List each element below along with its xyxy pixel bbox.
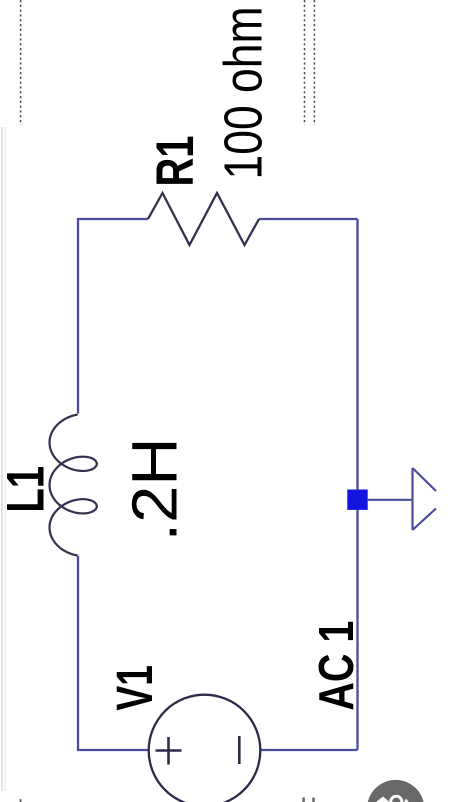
svg-text:L1: L1 <box>0 466 56 513</box>
wire top-right segment <box>259 218 358 220</box>
svg-text:.2H: .2H <box>119 438 191 542</box>
faint panel edge line left <box>1 127 3 791</box>
wire bottom-right segment <box>261 749 358 751</box>
ground triangle <box>413 468 437 530</box>
svg-text:R1: R1 <box>146 136 205 187</box>
junction node square <box>347 490 367 510</box>
wire bottom-left segment <box>78 556 149 750</box>
floating action button <box>367 780 424 802</box>
V1 plus sign <box>156 749 182 752</box>
page border dashed line right <box>313 0 315 125</box>
wire right vertical <box>356 219 358 750</box>
resistor R1 zigzag <box>148 193 259 245</box>
svg-text:V1: V1 <box>106 665 163 711</box>
fab icon <box>376 797 390 802</box>
ground stem wire <box>368 499 413 501</box>
bottom page border dash start <box>20 799 22 802</box>
voltage source V1 circle <box>149 695 261 802</box>
page border dashed line left <box>20 0 22 125</box>
cut-off text marks bottom <box>302 798 305 802</box>
inductor L1 coil <box>50 415 97 556</box>
svg-text:100 ohm: 100 ohm <box>214 7 274 180</box>
wire top-left segment <box>78 219 148 414</box>
page border dashed line middle <box>304 0 306 125</box>
svg-text:AC 1: AC 1 <box>309 621 364 711</box>
V1 minus sign <box>238 736 241 764</box>
